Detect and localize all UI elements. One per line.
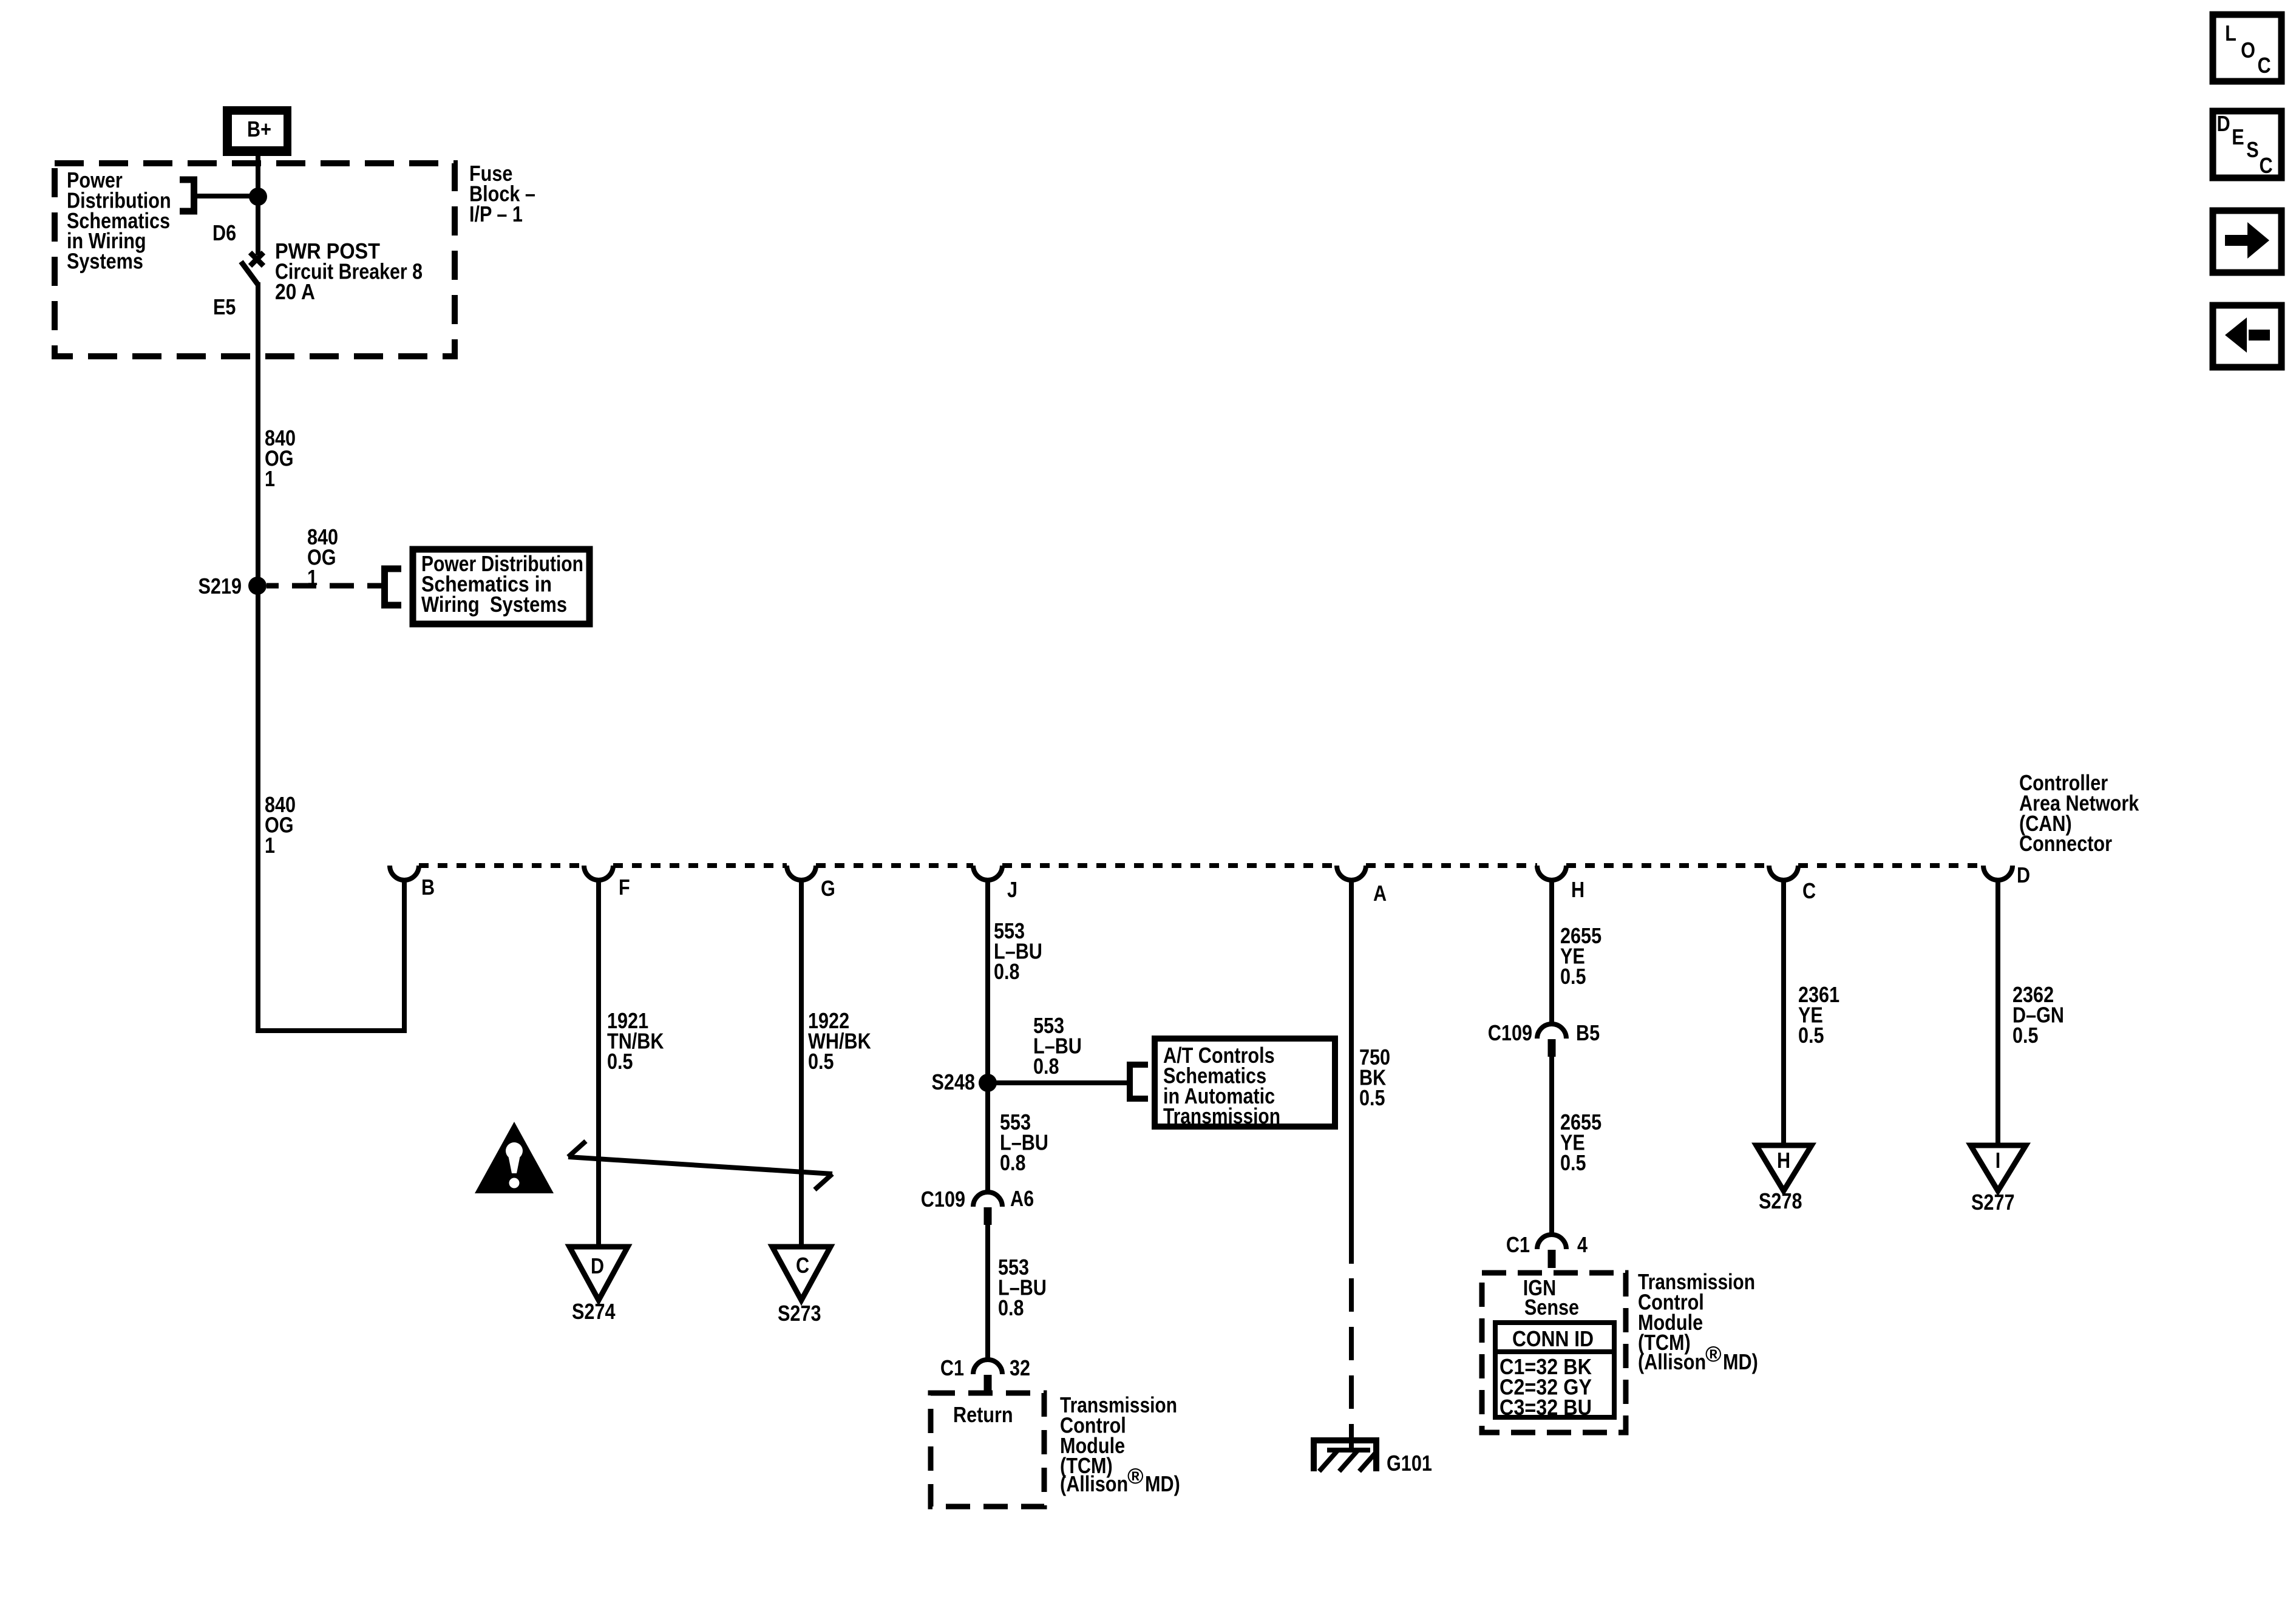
svg-text:CONN ID: CONN ID — [1512, 1326, 1594, 1351]
svg-text:A6: A6 — [1010, 1186, 1034, 1211]
svg-text:0.8: 0.8 — [994, 959, 1020, 984]
svg-text:L: L — [2225, 21, 2237, 46]
svg-text:1: 1 — [265, 466, 275, 491]
svg-text:D: D — [2216, 111, 2230, 136]
svg-text:B: B — [421, 875, 435, 900]
svg-text:(Allison: (Allison — [1638, 1349, 1706, 1374]
svg-text:C1: C1 — [1506, 1232, 1530, 1257]
svg-text:C: C — [1802, 878, 1816, 903]
svg-text:S274: S274 — [572, 1299, 616, 1324]
svg-text:0.5: 0.5 — [1560, 964, 1586, 989]
svg-text:Systems: Systems — [67, 249, 143, 274]
svg-text:B+: B+ — [247, 117, 271, 141]
svg-text:D: D — [591, 1253, 604, 1278]
svg-text:C: C — [2257, 53, 2271, 78]
svg-text:4: 4 — [1577, 1232, 1588, 1257]
svg-text:0.5: 0.5 — [607, 1049, 633, 1074]
svg-text:0.8: 0.8 — [1033, 1054, 1059, 1079]
svg-text:I: I — [1995, 1148, 2001, 1173]
svg-text:G101: G101 — [1387, 1451, 1432, 1476]
svg-text:MD): MD) — [1145, 1471, 1180, 1496]
svg-text:0.5: 0.5 — [1359, 1085, 1385, 1110]
svg-text:S273: S273 — [778, 1301, 821, 1326]
svg-text:®: ® — [1705, 1341, 1722, 1366]
svg-text:MD): MD) — [1723, 1349, 1758, 1374]
svg-text:B5: B5 — [1576, 1020, 1600, 1045]
svg-text:0.8: 0.8 — [998, 1295, 1024, 1320]
svg-text:S248: S248 — [932, 1070, 976, 1094]
svg-text:C: C — [2259, 153, 2272, 178]
svg-text:C3=32 BU: C3=32 BU — [1500, 1395, 1592, 1420]
svg-text:(Allison: (Allison — [1060, 1471, 1128, 1496]
svg-text:®: ® — [1127, 1463, 1144, 1488]
svg-text:C1: C1 — [940, 1355, 964, 1380]
svg-text:S: S — [2246, 137, 2258, 162]
svg-text:O: O — [2241, 38, 2255, 63]
svg-text:0.5: 0.5 — [808, 1049, 834, 1074]
svg-text:32: 32 — [1010, 1355, 1030, 1380]
svg-text:S219: S219 — [199, 574, 242, 598]
svg-text:E: E — [2232, 124, 2244, 149]
svg-text:Wiring Systems: Wiring Systems — [421, 592, 567, 617]
svg-text:C109: C109 — [921, 1187, 965, 1212]
svg-text:0.5: 0.5 — [2012, 1023, 2039, 1048]
svg-text:Transmission: Transmission — [1163, 1103, 1280, 1128]
svg-text:S277: S277 — [1971, 1190, 2015, 1215]
svg-text:H: H — [1777, 1148, 1790, 1173]
svg-text:0.8: 0.8 — [1000, 1150, 1026, 1175]
svg-text:I/P – 1: I/P – 1 — [469, 202, 523, 226]
svg-text:20 A: 20 A — [275, 279, 315, 304]
svg-text:1: 1 — [265, 833, 275, 858]
svg-text:S278: S278 — [1759, 1188, 1802, 1213]
svg-text:F: F — [619, 875, 630, 900]
svg-text:G: G — [821, 876, 835, 901]
svg-text:D: D — [2017, 863, 2030, 887]
svg-text:H: H — [1571, 877, 1584, 902]
svg-text:E5: E5 — [213, 294, 236, 319]
svg-text:0.5: 0.5 — [1560, 1150, 1586, 1175]
svg-text:Sense: Sense — [1524, 1295, 1579, 1320]
svg-text:Connector: Connector — [2019, 831, 2112, 856]
svg-text:J: J — [1007, 877, 1017, 902]
svg-text:D6: D6 — [212, 220, 236, 245]
svg-text:A: A — [1373, 881, 1387, 906]
svg-text:C: C — [796, 1253, 809, 1278]
svg-text:C109: C109 — [1488, 1020, 1532, 1045]
svg-text:0.5: 0.5 — [1798, 1023, 1824, 1048]
svg-text:Return: Return — [953, 1402, 1013, 1427]
